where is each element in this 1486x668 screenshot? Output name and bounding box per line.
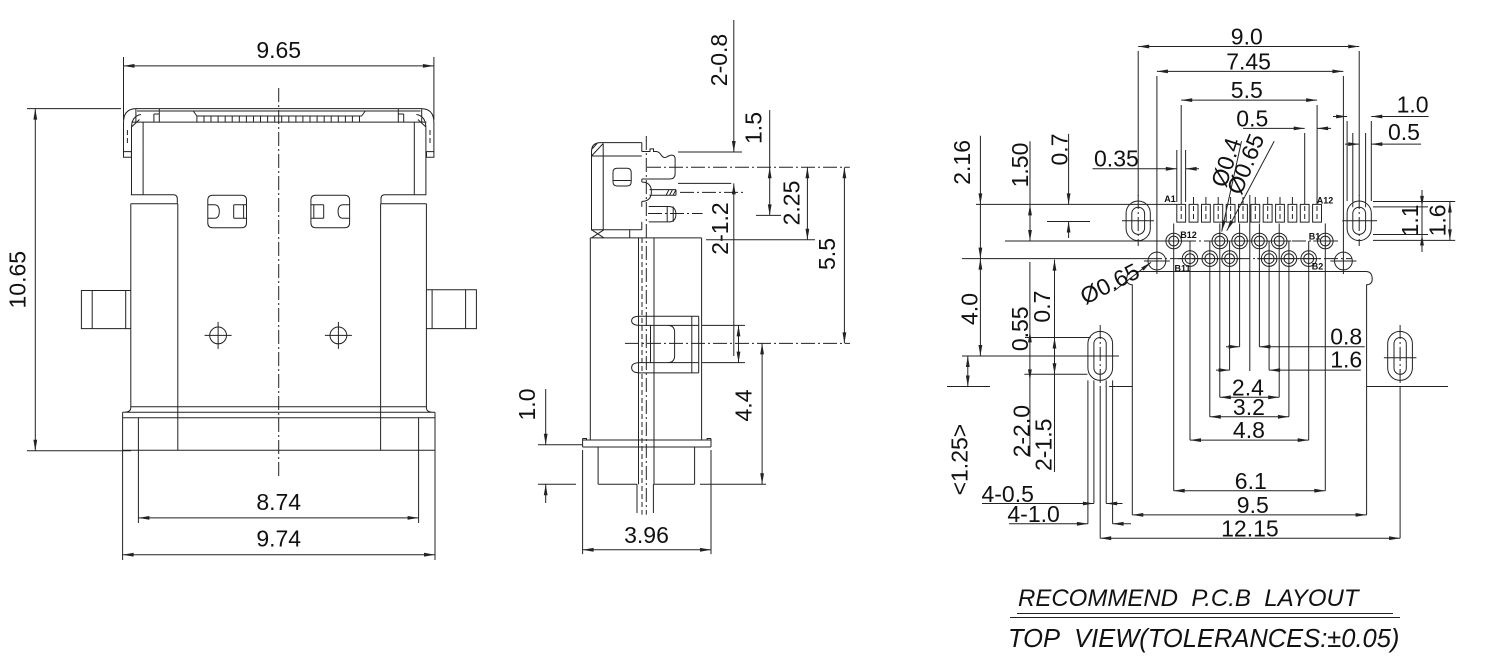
- svg-text:8.74: 8.74: [256, 489, 301, 515]
- svg-text:1.6: 1.6: [1330, 347, 1362, 373]
- svg-text:4.8: 4.8: [1233, 417, 1265, 443]
- svg-text:10.65: 10.65: [5, 251, 31, 309]
- svg-text:9.74: 9.74: [256, 526, 301, 552]
- svg-text:B2: B2: [1312, 262, 1324, 272]
- svg-text:9.5: 9.5: [1237, 492, 1269, 518]
- svg-text:1.1: 1.1: [1397, 204, 1423, 236]
- svg-text:1.0: 1.0: [514, 389, 540, 421]
- svg-text:0.5: 0.5: [1236, 106, 1268, 132]
- svg-text:TOP VIEW(TOLERANCES:±0.05): TOP VIEW(TOLERANCES:±0.05): [1008, 625, 1399, 653]
- svg-text:2.25: 2.25: [779, 181, 805, 226]
- svg-text:1.0: 1.0: [1397, 92, 1429, 118]
- svg-text:9.0: 9.0: [1231, 24, 1263, 50]
- svg-text:A1: A1: [1164, 194, 1176, 204]
- svg-text:4.0: 4.0: [956, 293, 982, 325]
- svg-text:2-0.8: 2-0.8: [706, 34, 732, 86]
- svg-text:6.1: 6.1: [1235, 468, 1267, 494]
- svg-text:0.35: 0.35: [1094, 146, 1139, 172]
- svg-text:0.8: 0.8: [1330, 323, 1362, 349]
- svg-text:5.5: 5.5: [814, 238, 840, 270]
- svg-text:3.96: 3.96: [624, 522, 669, 548]
- svg-text:B11: B11: [1174, 264, 1190, 274]
- svg-text:9.65: 9.65: [256, 37, 301, 63]
- svg-text:B12: B12: [1180, 230, 1197, 240]
- svg-text:0.5: 0.5: [1388, 119, 1420, 145]
- svg-text:RECOMMEND P.C.B LAYOUT: RECOMMEND P.C.B LAYOUT: [1018, 585, 1361, 612]
- svg-text:2-1.5: 2-1.5: [1031, 419, 1057, 471]
- svg-text:7.45: 7.45: [1226, 49, 1271, 75]
- svg-text:12.15: 12.15: [1221, 515, 1279, 541]
- svg-text:1.50: 1.50: [1007, 143, 1033, 188]
- svg-text:1.5: 1.5: [741, 112, 767, 144]
- svg-text:B1: B1: [1309, 232, 1321, 242]
- svg-text:3.2: 3.2: [1233, 394, 1265, 420]
- svg-text:5.5: 5.5: [1231, 77, 1263, 103]
- svg-text:A12: A12: [1317, 196, 1334, 206]
- svg-text:0.7: 0.7: [1046, 134, 1072, 166]
- svg-text:2-1.2: 2-1.2: [707, 202, 733, 254]
- svg-text:4.4: 4.4: [731, 389, 757, 421]
- svg-text:1.6: 1.6: [1424, 204, 1450, 236]
- svg-text:0.7: 0.7: [1029, 291, 1055, 323]
- svg-text:2.16: 2.16: [949, 140, 975, 185]
- svg-text:4-1.0: 4-1.0: [1007, 501, 1059, 527]
- svg-text:<1.25>: <1.25>: [947, 424, 973, 496]
